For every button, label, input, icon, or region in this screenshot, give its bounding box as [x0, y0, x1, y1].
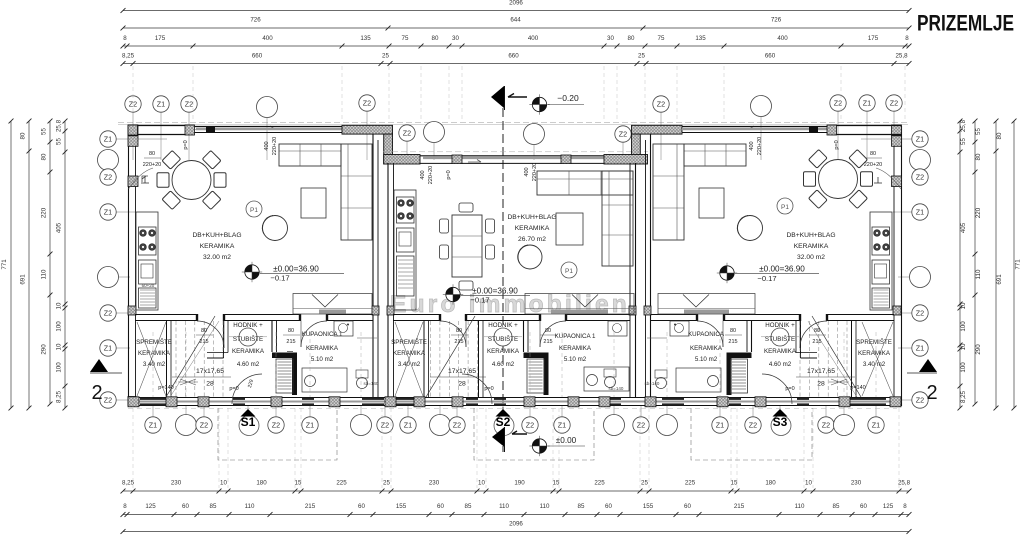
svg-text:25: 25 — [382, 53, 389, 60]
svg-text:Z2: Z2 — [637, 421, 645, 430]
svg-text:220+20: 220+20 — [532, 163, 538, 182]
svg-text:2096: 2096 — [509, 521, 523, 528]
svg-text:400: 400 — [262, 35, 273, 42]
svg-text:−0.20: −0.20 — [557, 93, 579, 103]
svg-text:Z1: Z1 — [104, 208, 112, 217]
svg-text:25: 25 — [383, 480, 390, 487]
svg-text:80: 80 — [288, 328, 294, 334]
svg-text:230: 230 — [851, 480, 862, 487]
svg-text:85: 85 — [578, 503, 585, 510]
svg-text:Z1: Z1 — [157, 100, 165, 109]
svg-text:Z2: Z2 — [363, 99, 371, 108]
svg-text:190: 190 — [514, 480, 525, 487]
svg-text:Z1: Z1 — [716, 421, 724, 430]
svg-text:220: 220 — [41, 207, 48, 218]
svg-text:8,25: 8,25 — [960, 390, 967, 403]
svg-text:KERAMIKA: KERAMIKA — [690, 345, 723, 352]
svg-text:10: 10 — [56, 302, 63, 309]
svg-text:55: 55 — [960, 138, 967, 145]
svg-text:60: 60 — [182, 503, 189, 510]
svg-text:Z1: Z1 — [916, 344, 924, 353]
svg-text:660: 660 — [765, 53, 776, 60]
svg-text:691: 691 — [20, 274, 27, 285]
svg-text:55: 55 — [56, 138, 63, 145]
svg-text:80: 80 — [41, 153, 48, 160]
svg-text:KUPAONICA: KUPAONICA — [688, 331, 725, 338]
svg-text:±0.00=36.90: ±0.00=36.90 — [273, 265, 319, 274]
svg-text:8: 8 — [123, 503, 127, 510]
svg-text:8: 8 — [905, 35, 909, 42]
svg-text:80: 80 — [730, 328, 736, 334]
svg-text:80: 80 — [996, 132, 1003, 139]
svg-text:220: 220 — [975, 207, 982, 218]
svg-text:Z2: Z2 — [104, 396, 112, 405]
svg-text:80: 80 — [545, 328, 551, 334]
svg-text:135: 135 — [360, 35, 371, 42]
svg-text:60: 60 — [437, 503, 444, 510]
svg-text:Z2: Z2 — [526, 421, 534, 430]
svg-text:10: 10 — [478, 480, 485, 487]
svg-text:3.40 m2: 3.40 m2 — [143, 361, 166, 368]
svg-text:S1: S1 — [241, 415, 256, 429]
svg-text:Z1: Z1 — [916, 135, 924, 144]
svg-text:sb=140: sb=140 — [364, 381, 379, 386]
svg-text:215: 215 — [454, 339, 463, 345]
svg-text:220+20: 220+20 — [143, 162, 162, 168]
svg-text:Z2: Z2 — [200, 421, 208, 430]
svg-text:Z2: Z2 — [453, 421, 461, 430]
svg-text:215: 215 — [199, 339, 208, 345]
svg-text:85: 85 — [833, 503, 840, 510]
svg-text:660: 660 — [252, 53, 263, 60]
svg-text:STUBIŠTE: STUBIŠTE — [233, 336, 263, 343]
svg-text:405: 405 — [960, 222, 967, 233]
svg-text:110: 110 — [795, 503, 805, 510]
svg-text:Z2: Z2 — [272, 421, 280, 430]
svg-text:KERAMIKA: KERAMIKA — [232, 348, 265, 355]
svg-text:4.60 m2: 4.60 m2 — [769, 361, 792, 368]
svg-text:25,8: 25,8 — [56, 119, 63, 132]
svg-text:215: 215 — [543, 339, 552, 345]
svg-text:KERAMIKA: KERAMIKA — [515, 225, 550, 232]
svg-text:26.70 m2: 26.70 m2 — [518, 236, 546, 243]
svg-text:220+20: 220+20 — [864, 162, 883, 168]
svg-text:P1: P1 — [781, 204, 789, 211]
svg-text:10: 10 — [56, 343, 63, 350]
svg-text:Z1: Z1 — [404, 421, 412, 430]
svg-text:Z1: Z1 — [104, 135, 112, 144]
svg-text:125: 125 — [145, 503, 156, 510]
svg-text:±0.00=36.90: ±0.00=36.90 — [759, 265, 805, 274]
svg-text:P1: P1 — [565, 268, 573, 275]
svg-text:55: 55 — [41, 128, 48, 135]
svg-text:110: 110 — [499, 503, 509, 510]
svg-text:2096: 2096 — [509, 0, 523, 7]
svg-text:660: 660 — [508, 53, 519, 60]
svg-text:KERAMIKA: KERAMIKA — [794, 243, 829, 250]
svg-text:25: 25 — [638, 53, 645, 60]
svg-text:400: 400 — [749, 141, 755, 150]
svg-text:STUBIŠTE: STUBIŠTE — [765, 336, 795, 343]
svg-text:10: 10 — [220, 480, 227, 487]
svg-text:80: 80 — [20, 132, 27, 139]
svg-text:220+20: 220+20 — [428, 166, 434, 185]
svg-text:28: 28 — [458, 381, 466, 388]
svg-text:100: 100 — [56, 321, 63, 332]
svg-text:KERAMIKA: KERAMIKA — [200, 243, 235, 250]
svg-text:Z2: Z2 — [104, 309, 112, 318]
svg-text:KERAMIKA: KERAMIKA — [393, 350, 426, 357]
svg-text:SPREMIŠTE: SPREMIŠTE — [136, 339, 172, 346]
svg-text:290: 290 — [975, 344, 982, 355]
svg-text:S3: S3 — [773, 415, 788, 429]
svg-text:8,25: 8,25 — [122, 480, 135, 487]
svg-text:2: 2 — [91, 382, 102, 404]
svg-text:215: 215 — [305, 503, 316, 510]
svg-text:8,25: 8,25 — [56, 390, 63, 403]
svg-text:p=0: p=0 — [834, 140, 840, 149]
svg-text:135: 135 — [695, 35, 706, 42]
svg-text:100: 100 — [56, 362, 63, 373]
svg-text:Z2: Z2 — [890, 99, 898, 108]
svg-text:5.10 m2: 5.10 m2 — [311, 356, 334, 363]
svg-text:Z2: Z2 — [916, 396, 924, 405]
svg-text:225: 225 — [685, 480, 696, 487]
svg-text:400: 400 — [524, 167, 530, 176]
svg-text:60: 60 — [860, 503, 867, 510]
svg-text:220+20: 220+20 — [757, 137, 763, 156]
svg-text:SPREMIŠTE: SPREMIŠTE — [856, 339, 892, 346]
svg-text:8,25: 8,25 — [122, 53, 135, 60]
svg-text:Z1: Z1 — [872, 421, 880, 430]
svg-text:80: 80 — [432, 35, 439, 42]
svg-text:290: 290 — [41, 344, 48, 355]
svg-text:771: 771 — [1, 259, 8, 270]
svg-text:405: 405 — [56, 222, 63, 233]
svg-text:80: 80 — [149, 151, 155, 157]
svg-text:Z1: Z1 — [863, 99, 871, 108]
svg-text:215: 215 — [286, 339, 295, 345]
svg-text:175: 175 — [868, 35, 879, 42]
svg-text:10: 10 — [805, 480, 812, 487]
svg-text:726: 726 — [771, 17, 782, 24]
svg-text:180: 180 — [256, 480, 267, 487]
svg-text:60: 60 — [358, 503, 365, 510]
svg-text:P1: P1 — [250, 207, 258, 214]
svg-text:3.40 m2: 3.40 m2 — [398, 361, 421, 368]
svg-text:Z2: Z2 — [403, 129, 411, 138]
svg-text:100: 100 — [960, 362, 967, 373]
svg-text:80: 80 — [814, 328, 820, 334]
svg-text:17x17,65: 17x17,65 — [807, 368, 835, 375]
svg-text:100: 100 — [960, 321, 967, 332]
svg-text:125: 125 — [883, 503, 894, 510]
svg-text:32.00 m2: 32.00 m2 — [797, 254, 825, 261]
svg-text:400: 400 — [420, 170, 426, 179]
svg-text:SPREMIŠTE: SPREMIŠTE — [391, 339, 427, 346]
svg-text:KUPAONICA 1: KUPAONICA 1 — [302, 331, 343, 338]
svg-text:230: 230 — [429, 480, 440, 487]
svg-text:17x17,65: 17x17,65 — [196, 368, 224, 375]
svg-text:PRIZEMLJE: PRIZEMLJE — [917, 11, 1014, 36]
svg-text:KERAMIKA: KERAMIKA — [306, 345, 339, 352]
svg-text:Z2: Z2 — [657, 100, 665, 109]
svg-text:225: 225 — [594, 480, 605, 487]
svg-text:85: 85 — [465, 503, 472, 510]
svg-text:85: 85 — [210, 503, 217, 510]
svg-text:230: 230 — [171, 480, 182, 487]
svg-text:220+20: 220+20 — [272, 137, 278, 156]
svg-text:p=0: p=0 — [446, 170, 452, 179]
svg-text:110: 110 — [975, 269, 982, 279]
svg-text:Z2: Z2 — [185, 100, 193, 109]
svg-text:KUPAONICA 1: KUPAONICA 1 — [555, 333, 596, 340]
svg-text:5.10 m2: 5.10 m2 — [564, 356, 587, 363]
svg-text:32.00 m2: 32.00 m2 — [203, 254, 231, 261]
svg-text:25,8: 25,8 — [895, 53, 908, 60]
svg-text:110: 110 — [540, 503, 550, 510]
svg-text:225: 225 — [336, 480, 347, 487]
svg-text:215: 215 — [728, 339, 737, 345]
svg-text:4.60 m2: 4.60 m2 — [237, 361, 260, 368]
svg-text:S2: S2 — [496, 415, 511, 429]
svg-text:60: 60 — [605, 503, 612, 510]
svg-text:DB+KUH+BLAG: DB+KUH+BLAG — [507, 214, 556, 221]
svg-text:30: 30 — [452, 35, 459, 42]
svg-text:KERAMIKA: KERAMIKA — [487, 348, 520, 355]
svg-text:155: 155 — [643, 503, 654, 510]
svg-text:215: 215 — [734, 503, 745, 510]
svg-text:60: 60 — [684, 503, 691, 510]
svg-text:Z2: Z2 — [916, 309, 924, 318]
svg-text:215: 215 — [812, 339, 821, 345]
svg-text:KERAMIKA: KERAMIKA — [559, 345, 592, 352]
svg-text:±0.00=36.90: ±0.00=36.90 — [472, 287, 518, 296]
svg-text:Z2: Z2 — [916, 173, 924, 182]
svg-text:Z1: Z1 — [916, 208, 924, 217]
svg-text:110: 110 — [245, 503, 255, 510]
svg-text:175: 175 — [155, 35, 166, 42]
svg-text:Z2: Z2 — [619, 130, 627, 139]
svg-text:8: 8 — [123, 35, 127, 42]
svg-text:691: 691 — [996, 274, 1003, 285]
svg-text:10: 10 — [960, 302, 967, 309]
svg-text:Z1: Z1 — [306, 421, 314, 430]
svg-text:28: 28 — [206, 381, 214, 388]
svg-text:726: 726 — [250, 17, 261, 24]
svg-text:180: 180 — [765, 480, 776, 487]
svg-text:110: 110 — [41, 269, 48, 279]
svg-text:25: 25 — [641, 480, 648, 487]
svg-text:Z2: Z2 — [822, 421, 830, 430]
svg-text:400: 400 — [528, 35, 539, 42]
svg-text:Z1: Z1 — [104, 344, 112, 353]
svg-text:Z2: Z2 — [104, 173, 112, 182]
svg-text:80: 80 — [870, 151, 876, 157]
svg-text:2: 2 — [926, 382, 937, 404]
svg-text:771: 771 — [1015, 259, 1022, 270]
svg-text:−0.17: −0.17 — [470, 296, 489, 305]
svg-text:sb=140: sb=140 — [645, 381, 660, 386]
svg-text:80: 80 — [456, 328, 462, 334]
svg-text:60+20: 60+20 — [142, 283, 155, 288]
svg-text:DB+KUH+BLAG: DB+KUH+BLAG — [192, 232, 241, 239]
svg-text:8: 8 — [903, 503, 907, 510]
svg-text:644: 644 — [510, 17, 521, 24]
svg-text:5.10 m2: 5.10 m2 — [695, 356, 718, 363]
svg-text:75: 75 — [402, 35, 409, 42]
svg-text:400: 400 — [264, 141, 270, 150]
svg-text:DB+KUH+BLAG: DB+KUH+BLAG — [786, 232, 835, 239]
svg-text:155: 155 — [396, 503, 407, 510]
svg-text:4.60 m2: 4.60 m2 — [492, 361, 515, 368]
svg-text:−0.17: −0.17 — [270, 274, 289, 283]
svg-text:80: 80 — [628, 35, 635, 42]
svg-text:STUBIŠTE: STUBIŠTE — [488, 336, 518, 343]
svg-text:KERAMIKA: KERAMIKA — [764, 348, 797, 355]
svg-text:80: 80 — [975, 153, 982, 160]
svg-text:10: 10 — [960, 343, 967, 350]
svg-text:28: 28 — [817, 381, 825, 388]
svg-text:Z1: Z1 — [149, 421, 157, 430]
svg-text:sb=140: sb=140 — [609, 386, 624, 391]
svg-text:80: 80 — [201, 328, 207, 334]
svg-text:30: 30 — [607, 35, 614, 42]
svg-text:Z2: Z2 — [749, 421, 757, 430]
svg-text:400: 400 — [777, 35, 788, 42]
svg-text:−0.17: −0.17 — [757, 274, 776, 283]
svg-text:55: 55 — [975, 128, 982, 135]
svg-text:75: 75 — [658, 35, 665, 42]
svg-text:25,8: 25,8 — [898, 480, 911, 487]
svg-text:25,8: 25,8 — [960, 119, 967, 132]
svg-text:p=0: p=0 — [183, 140, 189, 149]
